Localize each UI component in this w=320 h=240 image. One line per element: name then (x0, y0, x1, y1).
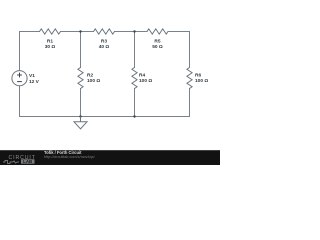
wire branch B1 upper (80, 32, 82, 68)
wire branch B2 upper (134, 32, 136, 68)
logo waveform (3, 161, 19, 164)
wire right rail lower (189, 89, 191, 117)
ground (74, 117, 87, 129)
voltage source V1 (12, 71, 27, 86)
svg-text:R1: R1 (47, 39, 53, 45)
resistor R6 (187, 68, 192, 89)
svg-text:R6: R6 (195, 72, 201, 78)
svg-text:100 Ω: 100 Ω (87, 78, 100, 84)
svg-text:100 Ω: 100 Ω (195, 78, 208, 84)
svg-text:50 Ω: 50 Ω (152, 44, 163, 50)
wire right rail upper (189, 32, 191, 68)
svg-text:LAB: LAB (23, 159, 32, 164)
watermark bar (0, 150, 220, 165)
wire branch B1 lower (80, 89, 82, 117)
svg-text:R5: R5 (154, 39, 160, 45)
node B junction dot (133, 30, 135, 32)
node bottom B2 junction dot (133, 115, 135, 117)
wire R1 to node A (61, 31, 94, 33)
wire node A to R3 (through) (115, 31, 148, 33)
wire bottom rail (20, 116, 190, 118)
node bottom B1 junction dot (79, 115, 81, 117)
node A junction dot (79, 30, 81, 32)
resistor R4 (132, 68, 137, 89)
svg-text:R2: R2 (87, 72, 93, 78)
wire branch B2 lower (134, 89, 136, 117)
wire R5 to top-right corner (168, 31, 190, 33)
svg-text:12 V: 12 V (29, 79, 40, 85)
logo LAB (21, 159, 35, 163)
svg-text:40 Ω: 40 Ω (99, 44, 110, 50)
resistor R5 (147, 29, 168, 34)
svg-text:100 Ω: 100 Ω (139, 78, 152, 84)
svg-text:30 Ω: 30 Ω (45, 44, 56, 50)
svg-text:R4: R4 (139, 72, 145, 78)
wire left rail lower (19, 86, 21, 117)
resistor R2 (78, 68, 83, 89)
wire left rail upper (19, 32, 21, 71)
resistor R1 (40, 29, 61, 34)
svg-text:http://circuitlab.com/c/nwv4qx: http://circuitlab.com/c/nwv4qx/ (44, 155, 96, 159)
svg-text:R3: R3 (101, 39, 107, 45)
resistor R3 (94, 29, 115, 34)
wire top-left to R1 (20, 31, 40, 33)
svg-text:V1: V1 (29, 73, 35, 79)
